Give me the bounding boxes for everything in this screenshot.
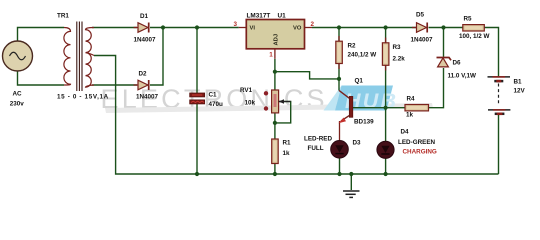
svg-text:R3: R3: [393, 44, 402, 51]
svg-text:R4: R4: [407, 96, 416, 103]
svg-text:C1: C1: [209, 92, 218, 99]
svg-text:R1: R1: [283, 140, 292, 147]
svg-text:R5: R5: [464, 16, 473, 23]
svg-text:2: 2: [311, 21, 315, 28]
svg-text:TR1: TR1: [57, 13, 69, 20]
svg-text:2.2k: 2.2k: [393, 56, 406, 63]
svg-text:1k: 1k: [283, 150, 291, 157]
svg-text:12V: 12V: [514, 88, 526, 95]
svg-text:RV1: RV1: [240, 87, 253, 94]
svg-text:AC: AC: [13, 91, 23, 98]
svg-text:LED-GREEN: LED-GREEN: [398, 139, 436, 146]
svg-text:D4: D4: [401, 129, 410, 136]
svg-text:CHARGING: CHARGING: [403, 149, 437, 156]
svg-text:B1: B1: [514, 79, 523, 86]
svg-text:LM317T: LM317T: [247, 13, 271, 20]
svg-text:FULL: FULL: [308, 145, 324, 152]
svg-text:D2: D2: [139, 71, 148, 78]
svg-text:1N4007: 1N4007: [411, 37, 434, 44]
svg-text:240,1/2 W: 240,1/2 W: [348, 52, 377, 59]
svg-text:BD139: BD139: [354, 119, 374, 126]
svg-text:Q1: Q1: [355, 78, 364, 85]
svg-text:1N4007: 1N4007: [136, 94, 159, 101]
svg-text:D3: D3: [353, 139, 362, 146]
svg-text:11.0 V,1W: 11.0 V,1W: [448, 73, 477, 80]
svg-text:10k: 10k: [245, 100, 256, 107]
svg-text:230v: 230v: [10, 100, 25, 107]
svg-text:R2: R2: [348, 43, 357, 50]
svg-text:3: 3: [234, 21, 238, 28]
svg-text:D1: D1: [140, 13, 149, 20]
svg-text:1k: 1k: [406, 112, 414, 119]
svg-text:1: 1: [269, 51, 273, 58]
svg-text:VI: VI: [250, 26, 256, 32]
svg-text:100, 1/2 W: 100, 1/2 W: [459, 33, 490, 40]
svg-text:LED-RED: LED-RED: [304, 136, 332, 143]
svg-text:VO: VO: [293, 26, 302, 32]
svg-text:U1: U1: [278, 13, 287, 20]
svg-text:ADJ: ADJ: [274, 34, 280, 46]
svg-text:D6: D6: [453, 60, 462, 67]
svg-text:D5: D5: [416, 12, 425, 19]
svg-text:1N4007: 1N4007: [134, 37, 157, 44]
svg-text:15 - 0 - 15V,1A: 15 - 0 - 15V,1A: [57, 94, 109, 101]
svg-text:470u: 470u: [209, 101, 224, 108]
